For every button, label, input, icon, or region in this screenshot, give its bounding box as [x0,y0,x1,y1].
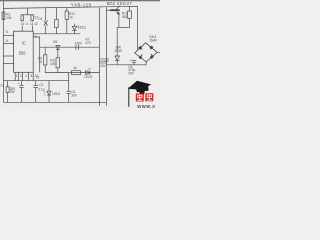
svg-text:1k: 1k [39,60,43,64]
svg-text:9: 9 [35,34,37,38]
svg-text:10k: 10k [6,16,12,20]
svg-text:16V: 16V [100,64,107,68]
svg-text:300: 300 [71,94,77,98]
svg-text:2: 2 [25,74,27,78]
svg-text:12: 12 [34,15,38,19]
svg-text:BG2: BG2 [107,1,116,6]
svg-text:1k: 1k [70,15,74,19]
svg-text:4: 4 [26,22,28,26]
svg-text:IC: IC [22,40,26,45]
svg-text:470: 470 [85,41,91,45]
svg-text:1k: 1k [73,66,77,70]
svg-text:C1: C1 [1,83,5,87]
svg-text:D5: D5 [53,40,57,44]
svg-text:C3: C3 [39,83,43,87]
svg-text:2CW: 2CW [115,49,122,53]
svg-text:1N40: 1N40 [149,38,157,42]
svg-text:100: 100 [50,62,56,66]
svg-text:YXB-120: YXB-120 [71,2,92,7]
svg-text:+: + [130,59,132,63]
svg-text:4700: 4700 [75,42,82,46]
svg-text:D4: D4 [38,17,42,21]
svg-text:3: 3 [20,74,22,78]
svg-text:2W: 2W [10,90,15,94]
svg-text:25V: 25V [128,71,135,75]
svg-text:12: 12 [34,22,38,26]
svg-text:14: 14 [30,22,34,26]
svg-text:16: 16 [21,22,25,26]
svg-text:0.1µ: 0.1µ [38,88,44,92]
svg-text:WWW.S: WWW.S [137,104,155,109]
svg-text:3DG27: 3DG27 [117,1,133,6]
svg-text:1: 1 [16,74,18,78]
svg-text:5: 5 [6,30,8,34]
svg-text:LED1: LED1 [52,92,60,96]
svg-text:LED2: LED2 [84,75,92,79]
svg-text:556: 556 [19,51,27,56]
svg-text:6: 6 [6,39,8,43]
svg-text:360: 360 [122,15,128,19]
svg-text:8: 8 [31,74,33,78]
svg-text:+: + [17,82,19,86]
svg-text:12: 12 [35,74,39,78]
svg-text:LED1: LED1 [78,25,86,29]
